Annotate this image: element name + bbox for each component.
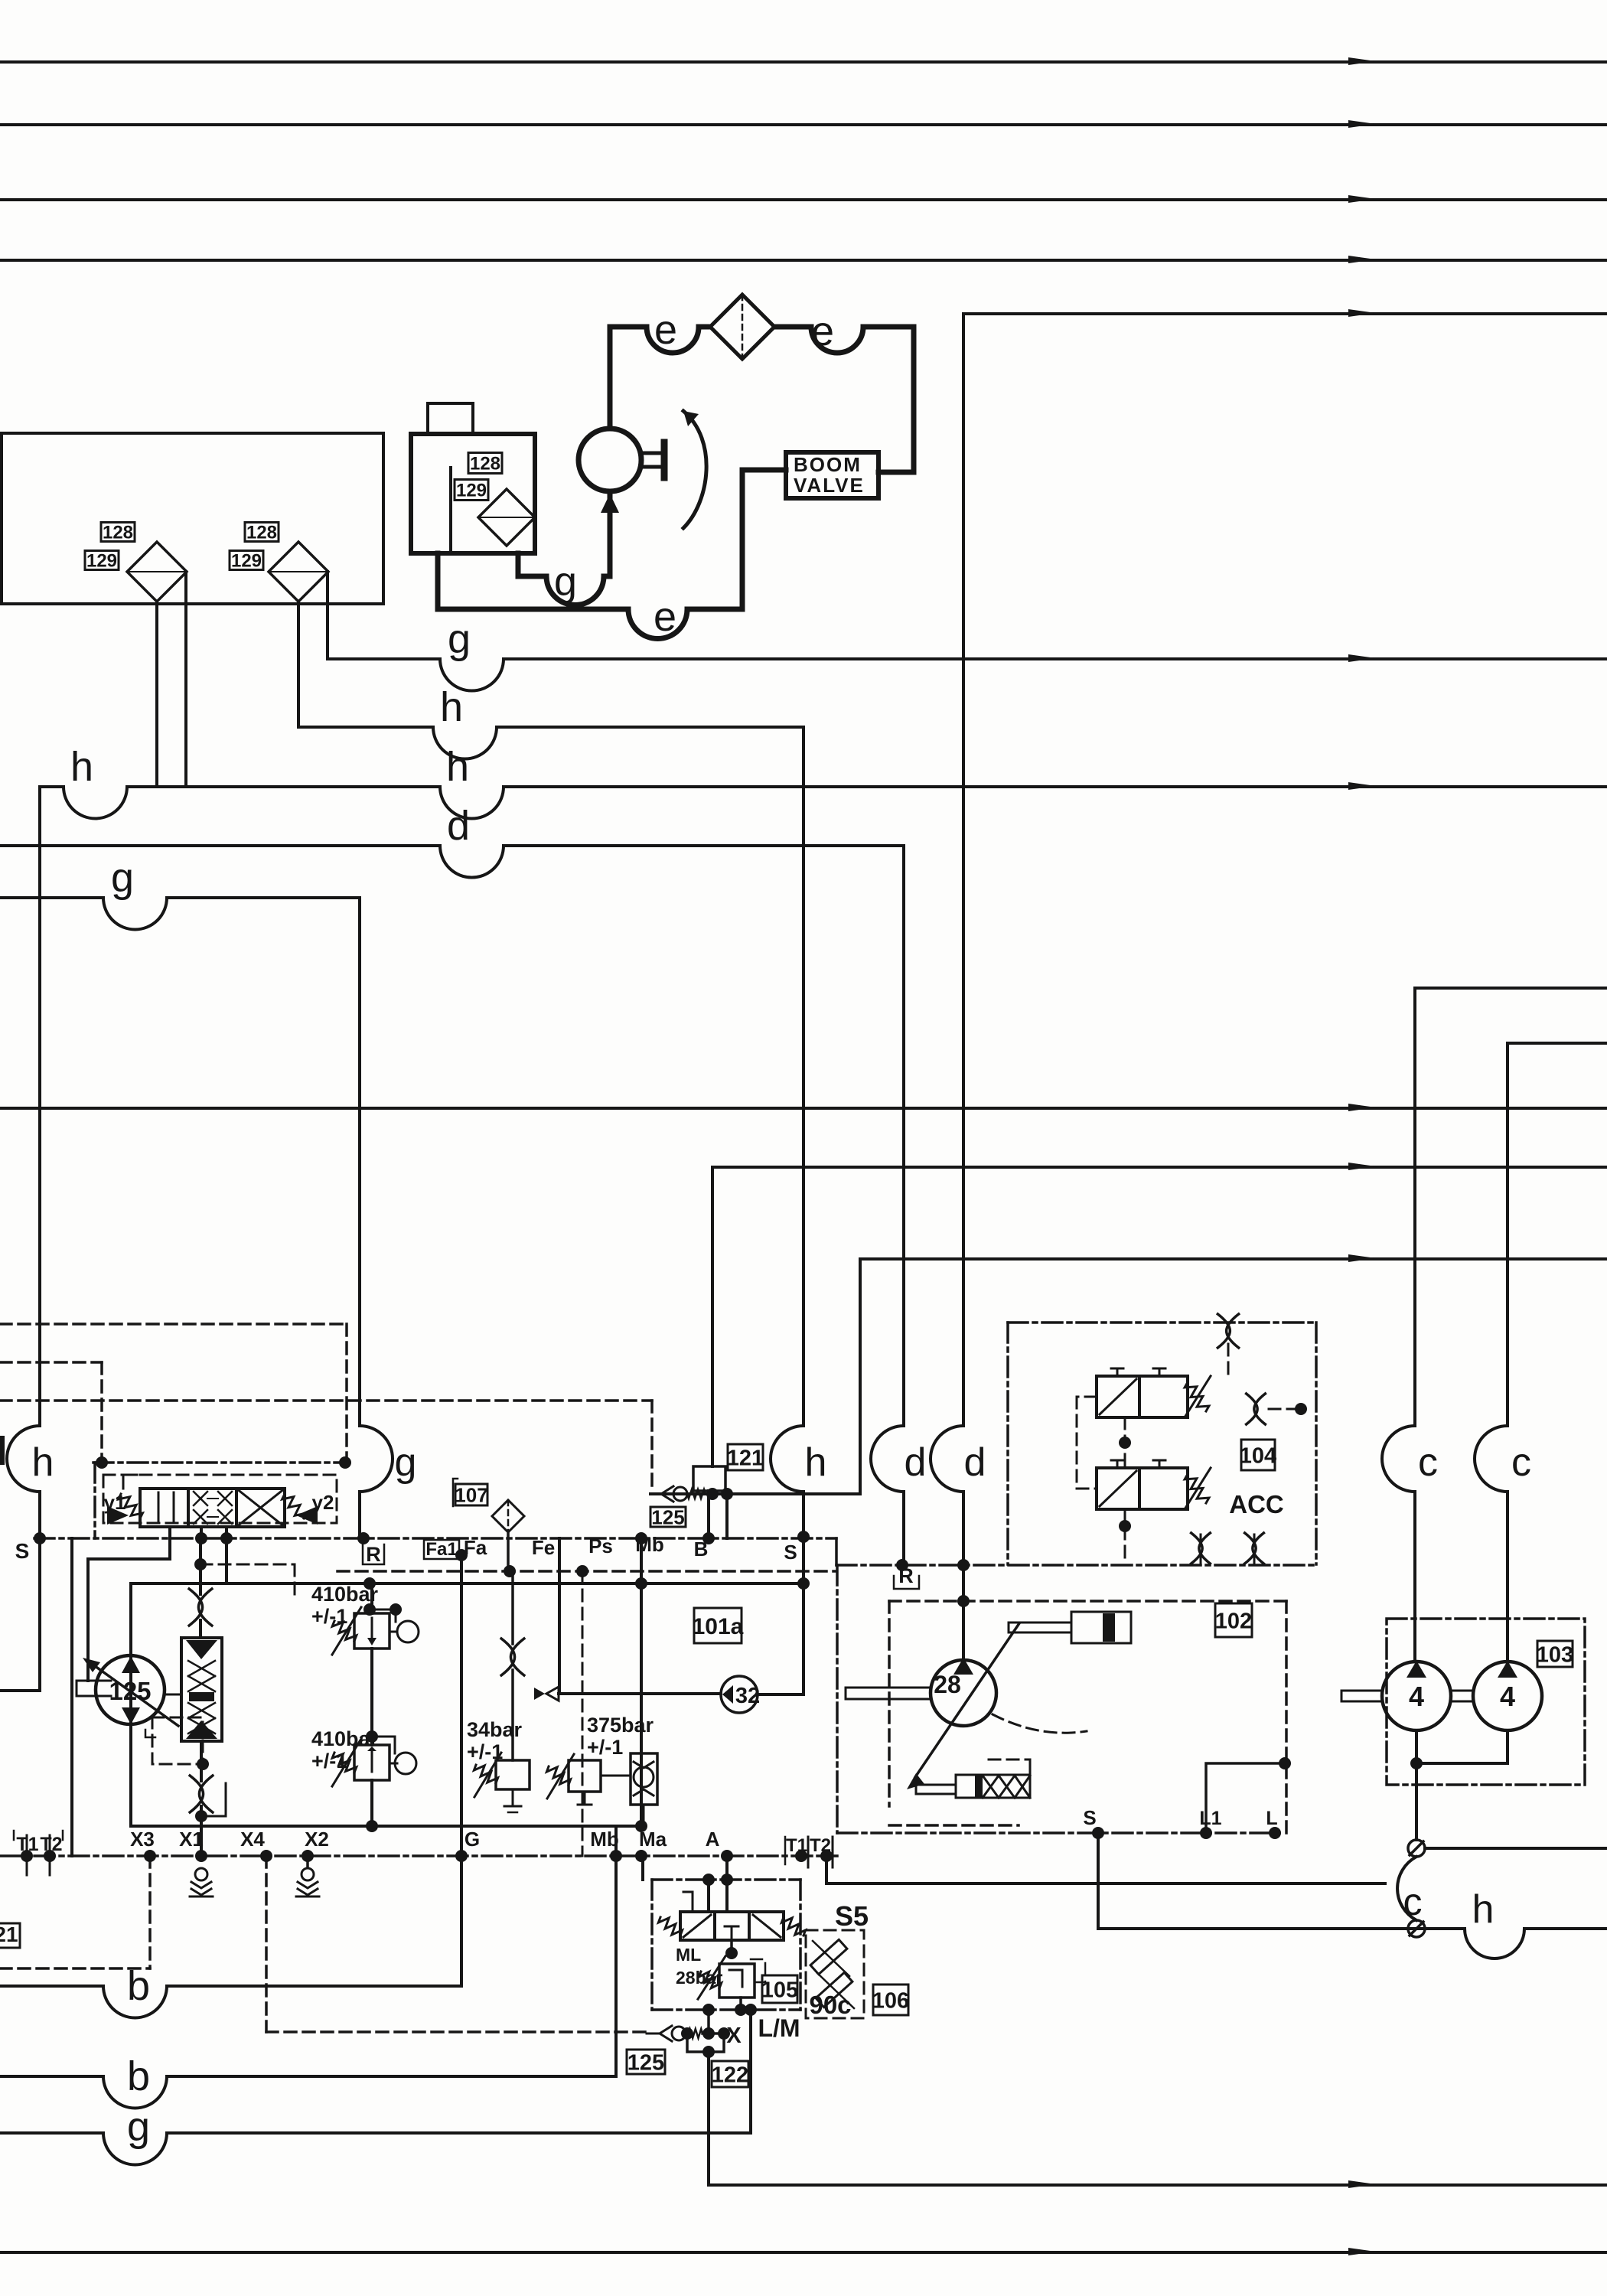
svg-text:c: c <box>1511 1440 1531 1485</box>
svg-text:h: h <box>1472 1887 1495 1932</box>
svg-text:G: G <box>464 1828 480 1851</box>
svg-text:g: g <box>111 855 134 901</box>
svg-text:90c: 90c <box>809 1991 851 2019</box>
svg-text:103: 103 <box>1537 1642 1573 1667</box>
svg-text:g: g <box>127 2104 150 2150</box>
svg-text:X1: X1 <box>179 1828 204 1851</box>
svg-text:125: 125 <box>627 2050 664 2075</box>
svg-text:d: d <box>964 1440 986 1485</box>
svg-text:Ma: Ma <box>639 1828 667 1851</box>
svg-text:h: h <box>805 1440 827 1485</box>
svg-text:X2: X2 <box>305 1828 329 1851</box>
svg-text:410bar: 410bar <box>311 1583 379 1606</box>
svg-text:104: 104 <box>1240 1443 1276 1468</box>
svg-text:b: b <box>127 1963 150 2009</box>
svg-text:h: h <box>32 1440 54 1485</box>
svg-text:129: 129 <box>86 551 117 572</box>
svg-text:g: g <box>395 1440 417 1485</box>
svg-text:S: S <box>784 1541 797 1564</box>
svg-text:b: b <box>127 2053 150 2099</box>
svg-text:L1: L1 <box>1199 1808 1221 1829</box>
svg-text:S: S <box>1083 1806 1096 1829</box>
svg-text:4: 4 <box>1409 1681 1424 1712</box>
svg-text:c: c <box>1418 1440 1438 1485</box>
svg-text:121: 121 <box>727 1446 764 1470</box>
svg-text:ACC: ACC <box>1229 1490 1284 1518</box>
svg-text:101a: 101a <box>693 1614 744 1639</box>
svg-text:125: 125 <box>651 1505 684 1528</box>
svg-text:105: 105 <box>761 1978 798 2002</box>
svg-text:BOOM: BOOM <box>794 453 862 476</box>
svg-text:128: 128 <box>470 454 500 475</box>
svg-text:d: d <box>447 803 470 849</box>
svg-text:128: 128 <box>103 523 133 543</box>
svg-text:y2: y2 <box>312 1491 334 1514</box>
svg-text:L: L <box>1266 1808 1277 1829</box>
svg-text:g: g <box>448 616 471 662</box>
svg-text:102: 102 <box>1215 1609 1252 1633</box>
svg-text:e: e <box>811 308 834 354</box>
svg-text:129: 129 <box>231 551 262 572</box>
svg-text:L/M: L/M <box>758 2014 800 2042</box>
svg-text:Fe: Fe <box>532 1536 555 1559</box>
svg-text:21: 21 <box>0 1923 18 1946</box>
svg-text:+/-1: +/-1 <box>587 1736 623 1759</box>
svg-text:34bar: 34bar <box>467 1718 523 1741</box>
svg-text:410bar: 410bar <box>311 1727 379 1750</box>
svg-text:375bar: 375bar <box>587 1714 654 1737</box>
svg-text:122: 122 <box>712 2063 748 2087</box>
svg-text:VALVE: VALVE <box>794 474 865 497</box>
svg-text:h: h <box>446 744 469 790</box>
svg-text:e: e <box>654 594 676 640</box>
svg-text:129: 129 <box>456 481 487 501</box>
svg-text:h: h <box>440 684 463 730</box>
svg-text:X3: X3 <box>130 1828 155 1851</box>
svg-text:R: R <box>366 1543 381 1566</box>
svg-text:h: h <box>70 744 93 790</box>
svg-text:y1: y1 <box>104 1491 126 1514</box>
svg-text:+/-1: +/-1 <box>467 1740 503 1763</box>
svg-text:4: 4 <box>1500 1681 1515 1712</box>
svg-text:Ps: Ps <box>588 1534 613 1557</box>
svg-text:A: A <box>706 1828 720 1851</box>
svg-text:ML: ML <box>676 1945 701 1965</box>
svg-text:X: X <box>726 2024 742 2048</box>
svg-text:c: c <box>1403 1880 1423 1923</box>
svg-text:106: 106 <box>872 1988 909 2013</box>
svg-text:28: 28 <box>934 1671 961 1698</box>
svg-text:S: S <box>15 1539 30 1563</box>
svg-text:S5: S5 <box>835 1900 869 1932</box>
svg-text:d: d <box>905 1440 927 1485</box>
svg-text:+/-1: +/-1 <box>311 1750 347 1773</box>
svg-text:28bar: 28bar <box>676 1968 722 1988</box>
svg-text:128: 128 <box>246 523 277 543</box>
svg-text:g: g <box>554 559 577 605</box>
svg-text:107: 107 <box>455 1483 487 1506</box>
svg-text:Fa1: Fa1 <box>425 1539 457 1560</box>
svg-text:X4: X4 <box>240 1828 265 1851</box>
svg-text:e: e <box>654 307 677 353</box>
svg-text:+/-1: +/-1 <box>311 1605 347 1628</box>
